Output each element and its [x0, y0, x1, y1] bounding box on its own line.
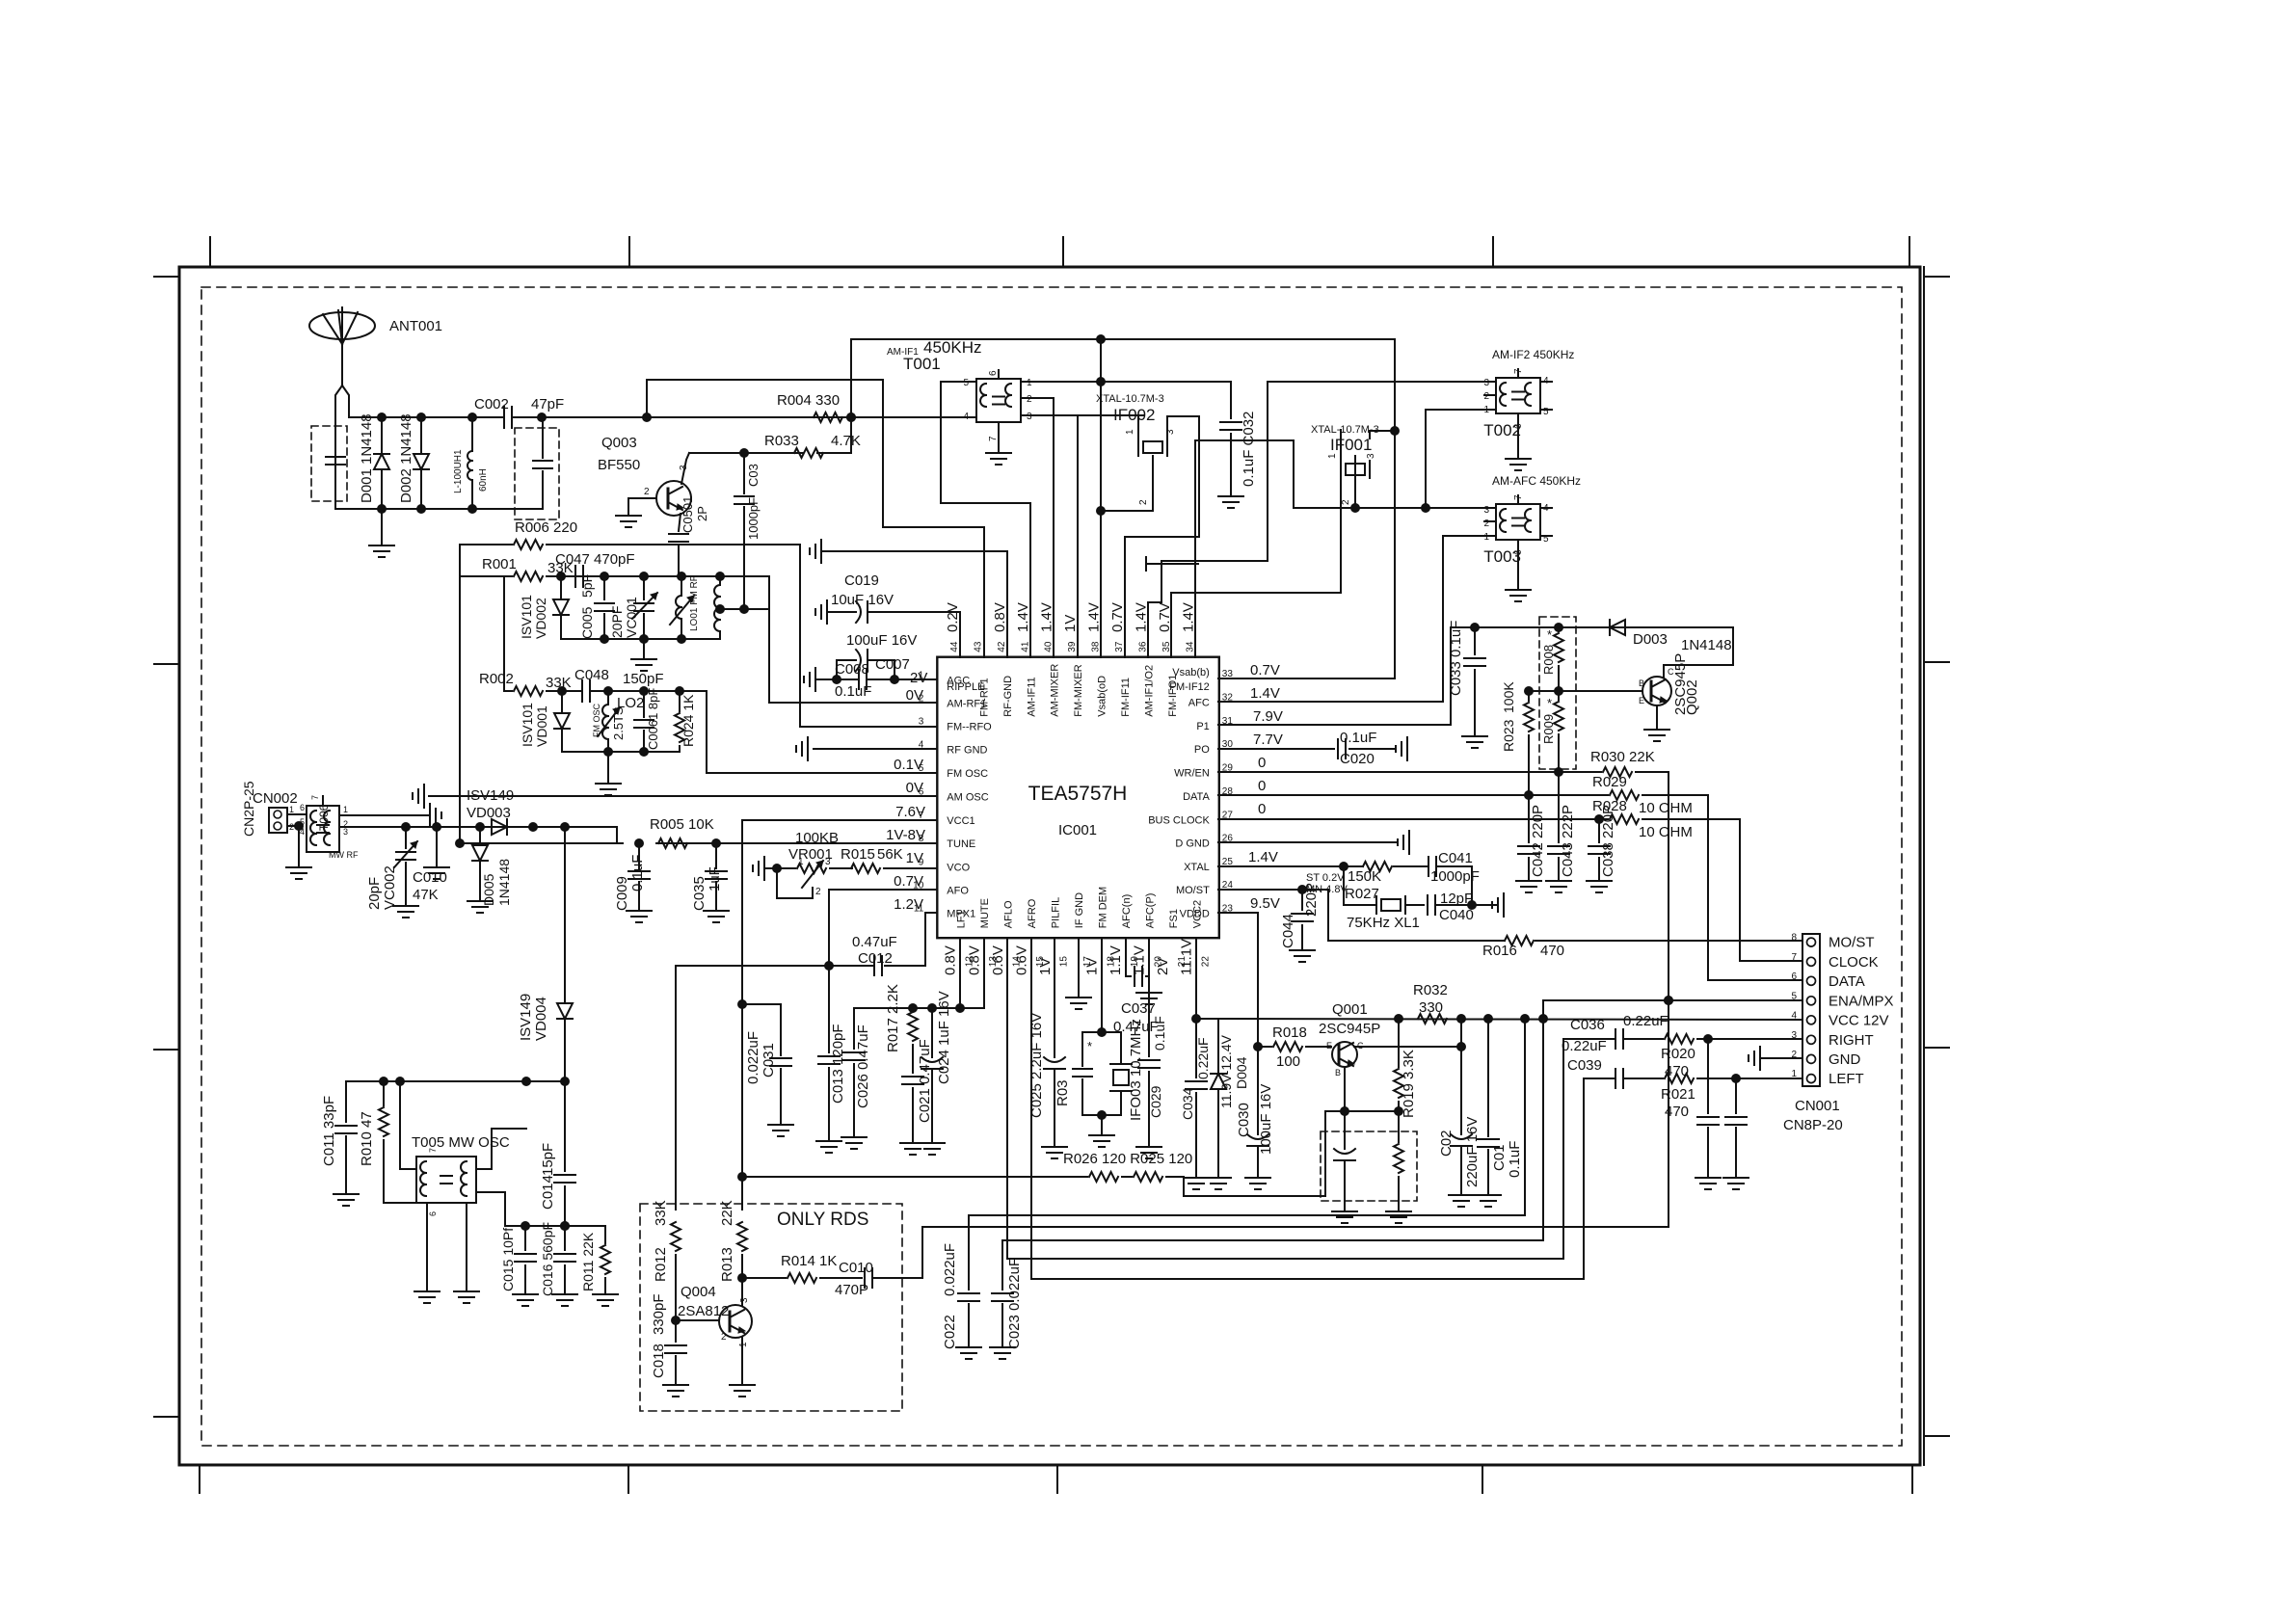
svg-text:FM OSC: FM OSC: [592, 704, 601, 737]
label R015 56K: [841, 846, 903, 863]
capacitor C032 0.1uF: [1218, 382, 1243, 508]
wire MO/ST pin24 row: [1218, 886, 1328, 894]
label Q004 2SA812: [678, 1284, 750, 1347]
capacitor C010 470P: [865, 1268, 902, 1288]
svg-text:D004: D004: [1234, 1056, 1249, 1089]
svg-text:1.4V: 1.4V: [1015, 602, 1031, 632]
svg-text:C041: C041: [1438, 850, 1473, 866]
capacitor C0061 8pF: [634, 688, 660, 752]
svg-text:9.5V: 9.5V: [1250, 895, 1280, 912]
svg-text:XTAL: XTAL: [1184, 862, 1210, 873]
capacitor C029 0.1uF: [1136, 938, 1161, 1158]
label D003 1N4148: [1633, 631, 1732, 653]
wire R002 to FM OSC pin: [707, 691, 937, 773]
svg-text:L-100UH1: L-100UH1: [453, 449, 464, 493]
resistor R006 220: [460, 519, 800, 549]
svg-text:E: E: [1639, 696, 1644, 705]
svg-text:3: 3: [1165, 429, 1176, 435]
wire VD004 to C014: [564, 1081, 566, 1171]
svg-text:2SA812: 2SA812: [678, 1303, 729, 1319]
svg-text:0.6V: 0.6V: [990, 945, 1006, 975]
svg-text:100uF 16V: 100uF 16V: [846, 632, 917, 649]
resistor R025 120: [1134, 1172, 1162, 1182]
T001 pin numbers: [963, 370, 1032, 441]
svg-text:C03: C03: [746, 464, 761, 487]
R03 IFO03 block bottom: [1082, 1111, 1121, 1148]
svg-text:R017 2.2K: R017 2.2K: [885, 984, 901, 1052]
svg-text:0V: 0V: [906, 687, 923, 704]
label Q003 BF550: [598, 435, 640, 473]
capacitor in right dashed box: [533, 417, 552, 509]
svg-text:D002 1N4148: D002 1N4148: [398, 413, 414, 503]
label C034 0.22uF: [1180, 1037, 1211, 1120]
svg-text:1: 1: [798, 857, 804, 867]
svg-text:CN2P-25: CN2P-25: [241, 781, 256, 837]
resistor R010 47: [379, 1081, 416, 1203]
svg-text:IC001: IC001: [1058, 822, 1097, 838]
ground T001 pin7: [986, 422, 1011, 465]
svg-text:0.6V: 0.6V: [1013, 945, 1029, 975]
wire antenna bus: [349, 416, 976, 418]
IF001 pin3 wire: [1218, 339, 1400, 678]
resistor R020 470: [1661, 1034, 1695, 1079]
svg-text:R012: R012: [653, 1247, 669, 1282]
wire DATA riser: [1707, 795, 1709, 980]
wire Vsab top link: [851, 335, 1395, 418]
wire TUNE pin8 row: [460, 839, 937, 848]
svg-text:C01: C01: [1491, 1144, 1508, 1171]
svg-text:C012: C012: [858, 950, 893, 967]
border frame outer: [179, 267, 1924, 1465]
svg-text:C036: C036: [1570, 1017, 1605, 1033]
svg-text:1: 1: [343, 805, 348, 814]
svg-text:C016 560pF: C016 560pF: [540, 1222, 555, 1296]
capacitor C011 33pF: [334, 1081, 359, 1206]
svg-text:7.6V: 7.6V: [895, 804, 925, 820]
label R026 120 R025 120: [1063, 1151, 1192, 1167]
svg-text:VCO: VCO: [947, 863, 970, 874]
resistor R015 56K: [830, 864, 937, 873]
svg-text:R026 120 R025 120: R026 120 R025 120: [1063, 1151, 1192, 1167]
capacitor C013 120pF: [816, 966, 841, 1153]
registration tick marks: [154, 237, 1949, 1493]
capacitor C002 47pF: [504, 407, 512, 428]
wire R023 top: [1529, 690, 1559, 692]
capacitor C021 0.47uF: [900, 1077, 925, 1155]
wire AFRO pin15 audio drop: [1030, 938, 1032, 1279]
label C042 220P: [1530, 805, 1546, 877]
svg-text:T006: T006: [317, 804, 331, 831]
dashed box R008 R009: [1539, 617, 1576, 769]
border frame inner dashed: [201, 287, 1902, 1446]
label C031 0.022uF: [745, 1031, 777, 1084]
svg-text:R027: R027: [1345, 886, 1379, 902]
label C022 0.022uF: [942, 1243, 958, 1349]
svg-text:IFO03 10.7MHz: IFO03 10.7MHz: [1128, 1019, 1144, 1121]
IC left pin voltages: [886, 687, 925, 913]
svg-text:2: 2: [1138, 499, 1149, 505]
svg-text:3: 3: [1483, 378, 1489, 388]
label TEA5757H: [1028, 783, 1128, 805]
svg-text:R001: R001: [482, 556, 517, 572]
diode D003 1N4148: [1559, 620, 1733, 635]
ground CN001 GND pin: [1749, 1047, 1802, 1070]
svg-text:1V-8V: 1V-8V: [886, 827, 925, 843]
svg-text:C018: C018: [651, 1344, 667, 1378]
IC TEA5757H body IC001: [937, 657, 1219, 939]
wire WR/EN pin29 row: [1218, 768, 1669, 777]
svg-text:VD001: VD001: [534, 705, 549, 747]
label C038 220P: [1600, 805, 1616, 877]
crystal XL1 75KHz: [1344, 866, 1424, 914]
svg-text:C007: C007: [875, 656, 910, 673]
svg-text:0.022uF: 0.022uF: [745, 1031, 761, 1084]
T002 pin2 stub: [1484, 394, 1496, 396]
label CN002: [241, 781, 298, 837]
wire Q003 base: [628, 487, 656, 498]
wire pin1 row: [815, 676, 937, 684]
capacitor C009 0.1uF: [627, 843, 652, 922]
wire AFLO pin14 audio drop: [1006, 938, 1008, 1259]
svg-text:VD003: VD003: [467, 805, 511, 821]
svg-text:75KHz XL1: 75KHz XL1: [1347, 915, 1420, 931]
label IFO03 10.7MHz: [1128, 1019, 1144, 1121]
svg-text:AM-IF1/O2: AM-IF1/O2: [1143, 665, 1155, 717]
diode D005 1N4148: [467, 827, 493, 913]
label R03: [1055, 1039, 1092, 1106]
svg-text:3: 3: [825, 857, 831, 867]
label T003: [1483, 474, 1581, 566]
svg-text:150pF: 150pF: [623, 671, 664, 687]
svg-text:VCC2: VCC2: [1191, 900, 1203, 928]
variable capacitor VC002 C010 20pF 47K: [393, 827, 418, 918]
label R012 33K: [653, 1200, 669, 1282]
wire VCC row A: [969, 1019, 1525, 1215]
svg-text:0V: 0V: [906, 780, 923, 796]
svg-text:R024 1K: R024 1K: [681, 694, 696, 747]
svg-text:Q001: Q001: [1332, 1001, 1368, 1018]
resistor R032 330: [1418, 1014, 1447, 1024]
wire T001 pin1 row: [1021, 378, 1231, 386]
resistor R011 22K: [593, 1226, 618, 1306]
wire Q002 base: [1559, 690, 1642, 692]
svg-text:37: 37: [1114, 641, 1125, 652]
wire ENA/MPX row: [1543, 997, 1802, 1020]
transistor Q003 BF550: [656, 481, 691, 516]
T002 pin numbers: [1483, 368, 1549, 429]
svg-text:CN8P-20: CN8P-20: [1783, 1117, 1843, 1133]
wire CN002 pin1 to T006: [287, 813, 307, 815]
resistor R004 330: [814, 412, 842, 422]
svg-text:R018: R018: [1272, 1024, 1307, 1041]
label C002 47pF: [474, 396, 564, 412]
svg-text:0.7V: 0.7V: [894, 873, 923, 890]
label IF001: [1311, 424, 1379, 454]
resistor R001 33K: [482, 556, 574, 581]
svg-text:R019 3.3K: R019 3.3K: [1401, 1050, 1417, 1118]
IC right pin voltages: [1248, 662, 1283, 912]
IF002 pin3 riser: [1125, 416, 1199, 657]
label R004 330: [777, 392, 840, 409]
svg-text:38: 38: [1091, 641, 1102, 652]
label C044 220P: [1280, 883, 1320, 948]
wire VCC row B: [1002, 1019, 1543, 1240]
svg-text:220P: 220P: [1303, 883, 1320, 917]
wire FM osc bottom bus: [562, 748, 680, 757]
svg-text:43: 43: [973, 641, 983, 652]
ground T003 pin6: [1506, 540, 1531, 601]
svg-text:MUTE: MUTE: [979, 898, 991, 928]
svg-text:T001: T001: [903, 355, 941, 373]
svg-text:ONLY RDS: ONLY RDS: [777, 1210, 868, 1230]
svg-text:10 OHM: 10 OHM: [1639, 800, 1693, 816]
T003 pin5 stub: [1540, 535, 1552, 537]
svg-text:1: 1: [738, 1342, 749, 1347]
svg-text:ISV101: ISV101: [520, 703, 535, 747]
label C018 330pF: [651, 1293, 667, 1378]
wire MO/ST to R016 row: [1328, 890, 1505, 941]
label C007 100uF 16V: [846, 632, 917, 673]
svg-text:47pF: 47pF: [531, 396, 564, 412]
svg-text:2: 2: [1027, 394, 1032, 405]
resistor R012 33K: [671, 966, 681, 1325]
svg-text:AFO: AFO: [947, 886, 969, 897]
svg-text:C010: C010: [413, 869, 447, 886]
svg-text:LO01 FM RF: LO01 FM RF: [689, 575, 700, 631]
label D004: [1218, 1034, 1249, 1108]
svg-text:100: 100: [1276, 1053, 1300, 1070]
svg-text:36: 36: [1137, 641, 1148, 652]
svg-text:C026 0.47uF: C026 0.47uF: [855, 1024, 871, 1108]
wire FM DEM pin18 drop: [1098, 938, 1107, 1037]
svg-text:C034: C034: [1180, 1087, 1195, 1120]
resistor R009: [1541, 687, 1563, 773]
wire T001 pin5: [941, 382, 1030, 657]
svg-text:0.8V: 0.8V: [992, 602, 1008, 632]
svg-text:3: 3: [739, 1297, 750, 1303]
svg-text:2: 2: [1483, 519, 1489, 529]
svg-text:R03: R03: [1055, 1079, 1071, 1106]
resistor R029 10 OHM: [1592, 774, 1693, 816]
svg-text:1.4V: 1.4V: [1086, 602, 1103, 632]
ground RF-GND pin42: [810, 540, 1007, 657]
label D001 1N4148: [359, 413, 375, 503]
diode D004 11.9V-12.4V: [1206, 1019, 1231, 1189]
wire C019 to pin44: [959, 612, 961, 657]
wire FM--RFO riser: [800, 545, 937, 727]
capacitor C016 560pF: [552, 1226, 577, 1306]
wire AFC pin32 riser: [1218, 536, 1496, 702]
svg-text:1V: 1V: [1062, 615, 1079, 632]
svg-text:R023: R023: [1501, 719, 1516, 752]
IF001 pin2 wire: [1341, 456, 1360, 513]
wire D003 to Q002 collector: [1664, 627, 1733, 678]
svg-text:60nH: 60nH: [478, 468, 489, 492]
svg-text:2: 2: [721, 1332, 727, 1343]
transformer T001 AM-IF1 450KHz: [976, 379, 1021, 422]
label C009 0.1uF: [614, 855, 646, 911]
IC right pin names: [1148, 667, 1233, 919]
svg-text:XTAL-10.7M-3: XTAL-10.7M-3: [1096, 393, 1164, 405]
wire T003 pin3 row: [1294, 504, 1496, 513]
label CN001 CN8P-20: [1783, 1098, 1843, 1133]
svg-text:D005: D005: [481, 873, 496, 906]
svg-text:1uF: 1uF: [707, 866, 723, 891]
svg-text:470P: 470P: [835, 1282, 868, 1298]
wire D GND pin26: [1218, 831, 1409, 854]
diode VD002 ISV101: [519, 576, 569, 639]
potentiometer VR001 100KB: [764, 830, 839, 898]
ground at Q003 base: [616, 498, 641, 527]
label R005 10K: [650, 816, 714, 833]
svg-text:C029: C029: [1148, 1085, 1163, 1118]
resistor R013 22K: [737, 1177, 747, 1283]
svg-text:P1: P1: [1196, 721, 1209, 732]
label D002 1N4148: [398, 413, 414, 503]
svg-text:15pF: 15pF: [540, 1143, 556, 1176]
svg-text:C024 1uF 16V: C024 1uF 16V: [936, 991, 952, 1084]
wire pin12 LF1 rail: [854, 938, 984, 1013]
capacitor C022 0.022uF: [956, 1215, 981, 1359]
svg-text:3: 3: [919, 717, 924, 728]
ground T005 left: [414, 1203, 440, 1303]
svg-text:7.7V: 7.7V: [1253, 732, 1283, 748]
svg-text:7: 7: [310, 795, 320, 800]
resistor R014 1K: [781, 1253, 837, 1283]
svg-text:10 OHM: 10 OHM: [1639, 824, 1693, 840]
IC bottom pin names: [955, 887, 1211, 967]
label MO/ST ST MN: [1306, 872, 1348, 895]
inductor LO1 FM RF: [670, 575, 700, 639]
label C02 220uF 16V: [1438, 1117, 1481, 1187]
svg-text:4.7K: 4.7K: [831, 433, 861, 449]
svg-text:Vsab(oD: Vsab(oD: [1097, 676, 1108, 717]
label C037 0.47uF: [1113, 1000, 1159, 1035]
svg-text:RF GND: RF GND: [947, 745, 987, 757]
svg-text:3: 3: [1366, 453, 1376, 459]
wire WR/EN riser to ENA: [1665, 772, 1673, 1227]
label C019: [831, 572, 894, 608]
svg-text:R033: R033: [764, 433, 799, 449]
wire osc bottom bus: [521, 1222, 606, 1231]
wire bus up to FM-RF1 net: [647, 380, 984, 657]
IC bottom pin voltages: [942, 939, 1194, 975]
label C040 12pF: [1439, 891, 1474, 923]
svg-text:22K: 22K: [719, 1200, 735, 1226]
svg-text:3: 3: [343, 827, 348, 837]
svg-text:5: 5: [963, 378, 969, 388]
svg-text:C038 220P: C038 220P: [1600, 805, 1616, 877]
svg-text:TEA5757H: TEA5757H: [1028, 783, 1128, 805]
svg-text:39: 39: [1067, 641, 1078, 652]
antenna ANT001: [309, 307, 375, 508]
wire T001 pin3 to pin39: [1021, 415, 1144, 657]
dashed box C002 load: [515, 428, 559, 519]
svg-text:6: 6: [300, 803, 305, 812]
capacitor C030 100uF 16V: [1245, 1047, 1270, 1189]
svg-text:VC002: VC002: [382, 865, 398, 910]
capacitor C025 2.2uF 16V: [1042, 938, 1067, 1158]
svg-text:C042 220P: C042 220P: [1530, 805, 1546, 877]
wire R014 row: [742, 1277, 862, 1279]
wire RDS out riser: [902, 1227, 1669, 1278]
diode VD001 ISV101: [520, 691, 570, 752]
capacitor C026 0.47uF: [841, 1008, 867, 1149]
svg-text:AFC(P): AFC(P): [1144, 893, 1156, 929]
label C029 0.1uF: [1148, 1016, 1167, 1118]
resistor R026 120: [1089, 1172, 1118, 1182]
label C039 0.22uF: [1562, 1038, 1607, 1074]
wire Q001 collector: [1354, 1019, 1466, 1051]
transformer T003 AM-AFC 450KHz: [1496, 504, 1540, 540]
IF002 pin1 stub: [1125, 415, 1138, 439]
capacitor C040 12pF: [1428, 893, 1504, 917]
svg-text:8: 8: [1791, 933, 1797, 944]
svg-text:1: 1: [1027, 378, 1032, 388]
wire MW bus: [346, 1078, 565, 1086]
ground AFC(P) pin20 drop: [1136, 938, 1161, 1004]
svg-text:LEFT: LEFT: [1829, 1071, 1864, 1087]
resistor R008: [1541, 627, 1563, 691]
capacitor C008 0.1uF: [859, 670, 867, 689]
svg-text:2V: 2V: [1155, 958, 1171, 975]
connector CN002 CN2P-25: [269, 808, 287, 833]
capacitor C034 0.22uF: [1184, 1019, 1209, 1189]
svg-text:1.4V: 1.4V: [1133, 602, 1149, 632]
connector CN001 CN8P-20: [1791, 933, 1893, 1088]
svg-text:ENA/MPX: ENA/MPX: [1829, 993, 1894, 1009]
resistor in Q001 dashed box: [1386, 1111, 1411, 1223]
svg-text:22: 22: [1200, 956, 1211, 968]
svg-text:7.9V: 7.9V: [1253, 708, 1283, 725]
label IF002: [1096, 393, 1164, 424]
svg-text:44: 44: [949, 641, 960, 652]
svg-text:1000pF: 1000pF: [746, 497, 761, 540]
capacitor C01 0.1uF: [1476, 1019, 1501, 1207]
svg-text:ANT001: ANT001: [389, 318, 442, 334]
capacitor C019 10uF 16V: [827, 601, 960, 623]
svg-text:330: 330: [1419, 999, 1443, 1016]
svg-text:Q004: Q004: [681, 1284, 716, 1300]
ground mid column: [424, 827, 449, 879]
label C011 33pF: [321, 1096, 337, 1166]
svg-text:3: 3: [1483, 505, 1489, 516]
svg-text:1: 1: [1483, 532, 1489, 543]
svg-text:R032: R032: [1413, 982, 1448, 998]
svg-text:RIGHT: RIGHT: [1829, 1032, 1874, 1049]
ground RF GND pin4: [796, 737, 937, 760]
resistor R027 150K: [1345, 862, 1428, 902]
capacitor C024 1uF 16V: [920, 1008, 945, 1155]
svg-text:1: 1: [919, 670, 924, 680]
capacitor right filter: [1695, 1039, 1721, 1189]
svg-text:0.1V: 0.1V: [894, 757, 923, 773]
svg-text:0.1uF: 0.1uF: [835, 683, 871, 700]
wire DATA pin28 row: [1218, 791, 1708, 800]
svg-text:D001 1N4148: D001 1N4148: [359, 413, 375, 503]
svg-text:1: 1: [1327, 453, 1338, 459]
svg-text:C009: C009: [614, 876, 630, 911]
svg-text:C02: C02: [1438, 1130, 1455, 1157]
svg-text:DATA: DATA: [1829, 973, 1865, 990]
label R010 47: [359, 1111, 375, 1166]
label T002: [1483, 348, 1574, 439]
svg-text:C014: C014: [540, 1175, 556, 1210]
svg-text:R029: R029: [1592, 774, 1627, 790]
svg-text:2P: 2P: [695, 506, 709, 521]
capacitor C037 0.47uF bridge: [1126, 938, 1149, 986]
label R017 2.2K: [885, 984, 901, 1052]
